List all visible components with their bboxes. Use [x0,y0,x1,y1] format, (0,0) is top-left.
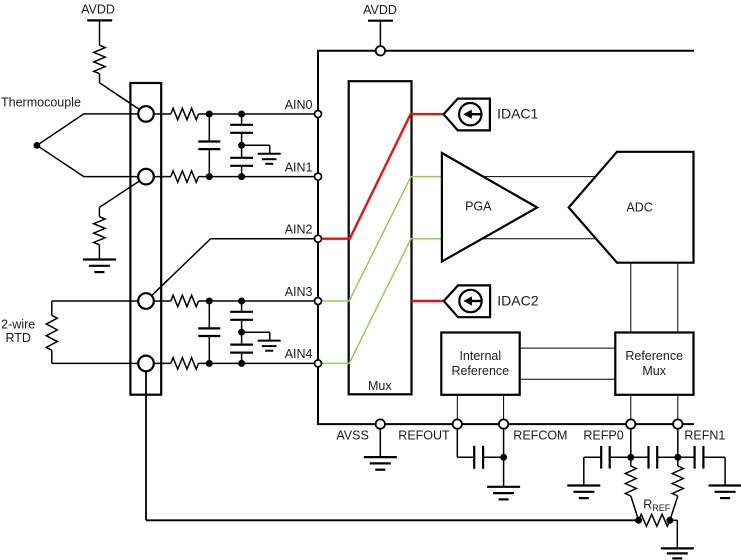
svg-text:2-wire: 2-wire [1,318,35,332]
wire REFCOM to ground [503,424,505,487]
pin AIN1 [315,173,322,180]
wire terminal to R5 [154,300,171,302]
wire return below block [145,363,147,394]
wire REFP0 pin down [630,424,632,457]
svg-text:Thermocouple: Thermocouple [1,96,81,110]
wire reference mux to REFP0 pin [630,395,632,424]
wire R4 to AIN1 pin [199,176,319,178]
svg-text:AVDD: AVDD [81,2,115,16]
capacitor C8 (REFP0 to ground) [601,446,610,469]
wire R1 bottom to thermocouple + terminal [100,74,147,114]
pin AIN2 [315,235,322,242]
svg-text:REFOUT: REFOUT [398,429,450,443]
svg-text:IDAC1: IDAC1 [497,106,538,122]
capacitor C2 (AIN0 to ground) [230,114,253,145]
resistor R1 (AVDD bias to thermocouple) [94,45,105,74]
op-amp PGA U3 [442,153,537,262]
wire C9 to REFN1 [657,456,678,458]
label AIN4 [285,347,313,361]
ground (AIN3/AIN4 filter) [258,341,281,351]
node REFN1 junction [674,454,681,461]
resistor RREF [639,514,670,526]
label REFCOM [513,429,567,443]
pin REFN1 [673,419,682,428]
node G (AIN3 line junction 2) [238,298,245,305]
svg-text:AVSS: AVSS [336,429,368,443]
node H (AIN4 line junction 1) [206,360,213,367]
wire RTD return to RREF (bottom loop) [146,363,639,520]
current source IDAC1 [444,99,539,131]
ground (thermocouple bias) [83,260,116,273]
pin AIN0 [315,111,322,118]
power symbol AVDD (left) [81,2,115,45]
svg-text:AIN2: AIN2 [285,223,313,237]
reference mux U6 box [615,333,693,395]
node B (AIN0 line junction 2) [238,111,245,118]
pin AVDD (top) [376,46,385,55]
wire AIN2 sense into block [146,280,168,301]
svg-text:REFCOM: REFCOM [513,429,567,443]
pin AIN4 [315,360,322,367]
pin AIN3 [315,298,322,305]
node L (RREF left) [635,517,642,524]
label AIN0 [285,98,313,112]
label RREF [643,497,671,513]
ground (REFP0 filter) [567,486,600,499]
node C (AIN1 line junction 1) [206,173,213,180]
pin REFP0 [626,419,635,428]
node I (AIN4 line junction 2) [238,360,245,367]
wire C7 to REFCOM line [483,456,504,458]
resistor RTD sensor [46,315,57,350]
wire PGA + route (green, AIN3 through mux) [318,177,442,301]
capacitor C10 (REFN1 to ground) [695,446,704,469]
label AVSS [336,429,368,443]
svg-text:Internal: Internal [459,349,501,363]
resistor R7 (REFP0 to RREF) [625,457,638,520]
wire C5/C6 midpoint to ground [242,332,270,340]
label Mux [368,379,392,393]
label AIN1 [285,160,313,174]
capacitor C6 (AIN4 to ground) [230,332,253,363]
wire RTD bottom into block [130,362,146,364]
node E (C2/C3 midpoint) [238,142,245,149]
capacitor C3 (AIN1 to ground) [230,145,253,176]
svg-text:Mux: Mux [642,364,666,378]
pin REFCOM [499,419,508,428]
wire ADC to reference mux (right) [677,263,679,333]
node K (REFOUT/REFCOM junction) [500,454,507,461]
wire terminal to R3 [154,113,171,115]
label AIN2 [285,223,313,237]
resistor R2 (thermocouple bias to ground) [94,207,105,259]
resistor R5 (series AIN3) [171,295,199,306]
wire R6 to AIN4 pin [199,362,319,364]
svg-text:PGA: PGA [465,200,492,214]
internal reference U5 box [441,333,519,395]
label REFN1 [684,429,725,443]
svg-text:Reference: Reference [625,349,683,363]
wire RTD top into block [130,300,146,302]
label Thermocouple [1,96,81,110]
wire PGA output + to ADC [468,176,612,178]
wire PGA - route (green, AIN4 through mux) [318,239,442,364]
resistor R8 (REFN1 to RREF) [670,457,683,520]
node D (AIN1 line junction 2) [238,173,245,180]
ADC U4 [569,152,694,263]
svg-text:AIN1: AIN1 [285,160,313,174]
terminal circle RTD + [138,293,154,309]
wire left cap branch [584,457,601,485]
label REFOUT [398,429,450,443]
wire C10 to ground [703,457,725,485]
wire internal reference to REFOUT pin [456,395,458,424]
wire PGA output - to ADC [468,238,612,240]
svg-text:AVDD: AVDD [363,3,397,17]
wire RREF to ground [670,520,677,548]
wire AVSS pin to ground [379,424,381,457]
capacitor C7 (REFOUT bypass) [474,446,483,469]
terminal circle thermocouple + [138,106,154,122]
svg-text:AIN0: AIN0 [285,98,313,112]
wire R5 to AIN3 pin [199,300,319,302]
wire IDAC2 route (red, mux to IDAC2) [412,300,444,302]
capacitor C5 (AIN3 to ground) [230,301,253,332]
pin REFOUT [453,419,462,428]
wire internal reference to reference mux (lower) [520,378,616,380]
wire terminal to R6 [154,362,171,364]
svg-text:IDAC2: IDAC2 [497,292,538,308]
wire RTD top lead [52,301,146,315]
node REFP0 junction [627,454,634,461]
svg-text:Mux: Mux [368,379,392,393]
terminal circle RTD - [138,356,154,372]
node J (C5/C6 midpoint) [238,329,245,336]
wire thermocouple - terminal to bias resistor [99,177,146,208]
wire bias resistor into block [130,177,146,187]
node M (RREF right) [666,517,673,524]
wire R3 to AIN0 pin [199,113,319,115]
wire REFOUT to C7 [457,424,474,457]
wire RTD bottom lead [52,350,146,363]
node A (AIN0 line junction 1) [206,111,213,118]
wire C2/C3 midpoint to ground [242,145,270,153]
resistor R3 (series AIN0) [171,108,199,119]
terminal circle thermocouple - [138,169,154,185]
wire thermocouple - into block [130,176,146,178]
connector block J1 [130,83,161,395]
svg-text:AIN3: AIN3 [285,285,313,299]
wire AVDD bias into block [117,94,147,114]
node thermocouple junction [34,142,41,149]
wire thermocouple negative lead [37,145,146,176]
svg-text:Reference: Reference [451,364,509,378]
power symbol AVDD (top) [363,3,397,51]
ground (REFN1 filter) [709,486,741,499]
resistor R6 (series AIN4) [171,358,199,369]
label REFP0 [583,429,623,443]
wire REFN1 to C10 [678,456,695,458]
label AIN3 [285,285,313,299]
ground (AVSS) [364,457,397,470]
label 2-wire RTD [1,318,35,345]
wire thermocouple positive lead [37,114,146,145]
capacitor C4 (differential AIN3-AIN4) [198,301,220,363]
svg-text:ADC: ADC [626,201,652,215]
ground (RREF) [661,548,694,558]
current source IDAC2 [444,285,539,317]
wire thermocouple + into block [130,113,146,115]
ground (REFCOM) [487,487,520,500]
chip boundary (ADS124x) [318,51,694,424]
svg-text:RTD: RTD [5,331,30,345]
pin AVSS [376,419,385,428]
wire REFN1 pin down [677,424,679,457]
svg-text:AIN4: AIN4 [285,347,313,361]
wire AIN2 sense line to RTD + terminal [146,239,318,301]
ground (AIN0/AIN1 filter) [258,154,281,164]
wire internal reference to REFCOM pin [503,395,505,424]
wire IDAC1 route (red, AIN2 through mux) [318,114,444,239]
mux U2 box [349,81,412,394]
capacitor C9 (REFP0-REFN1 differential) [649,446,658,469]
svg-text:REFN1: REFN1 [684,429,725,443]
wire REFP0 to C9 [631,456,649,458]
wire terminal to R4 [154,176,171,178]
resistor R4 (series AIN1) [171,171,199,182]
svg-text:REFP0: REFP0 [583,429,623,443]
wire reference mux to REFN1 pin [677,395,679,424]
node F (AIN3 line junction 1) [206,298,213,305]
wire C8 to REFP0 [610,456,631,458]
wire internal reference to reference mux (upper) [520,347,616,349]
capacitor C1 (differential AIN0-AIN1) [198,114,220,177]
wire ADC to reference mux (left) [630,263,632,333]
